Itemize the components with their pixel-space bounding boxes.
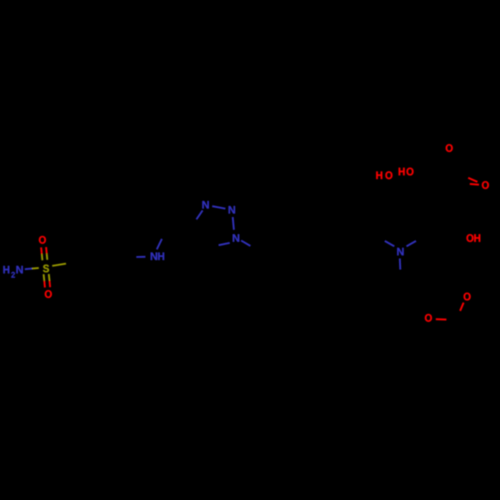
atom O (sulfonyl oxygen bottom) <box>45 290 52 298</box>
bond N2-N1 triazole <box>233 217 234 230</box>
atom HO (hydroxyl left) <box>376 171 392 179</box>
bond N3-N2 triazole <box>212 206 225 208</box>
atom HO (hydroxyl right) <box>399 168 414 176</box>
bond S=O bottom double <box>44 274 51 288</box>
bond C-N anilino (nitrogen half) <box>136 256 145 258</box>
atom N1 (triazole) <box>233 234 239 242</box>
atom N2 (triazole) <box>229 206 235 214</box>
bond O-C acetal lower (oxygen half) <box>436 318 447 320</box>
atom NH (anilino nitrogen) <box>151 253 164 261</box>
bond N3-C4 (nitrogen half) <box>196 210 202 219</box>
atom N3 (triazole) <box>202 201 208 209</box>
bond N1-C5 (nitrogen half) <box>219 243 230 245</box>
atom O (acetal oxygen upper) <box>464 293 471 301</box>
bond S=O top double <box>41 247 47 260</box>
bond CH2-N amine (nitrogen half) <box>385 241 395 246</box>
bond S-C aryl (sulfur half) <box>52 264 66 266</box>
atom S (sulfonyl sulfur) <box>43 265 49 273</box>
atom O (ring ether oxygen) <box>446 144 453 152</box>
atom O (sulfonyl oxygen top) <box>39 236 46 244</box>
bond C=O ketone double (oxygen halves) <box>468 178 479 185</box>
bond N-C down (nitrogen half) <box>399 258 402 269</box>
atom O (acetal oxygen lower) <box>425 314 432 322</box>
bond N-C up-right (nitrogen half) <box>407 241 417 246</box>
atom OH (hydroxyl) <box>467 234 481 242</box>
atom H2N (sulfonamide nitrogen) <box>3 266 22 278</box>
atom N (tertiary amine) <box>397 248 403 256</box>
bond O-C acetal upper (oxygen half) <box>460 303 464 311</box>
bond H2N-S <box>25 268 39 269</box>
bond N1-CH2 chain (nitrogen half) <box>241 241 250 246</box>
bond N-CH2 (nitrogen half) <box>157 239 162 250</box>
atom O (ketone oxygen) <box>482 181 489 189</box>
